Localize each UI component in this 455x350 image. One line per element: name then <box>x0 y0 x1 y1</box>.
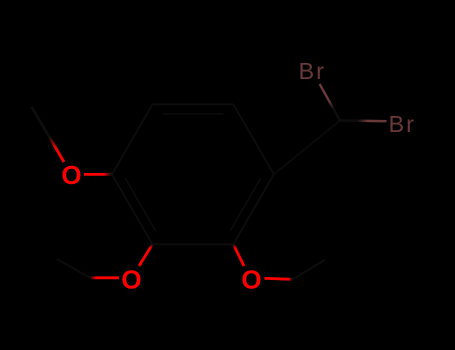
svg-text:O: O <box>121 265 141 295</box>
bond ring D to CHBr2 carbon <box>274 121 340 175</box>
svg-text:O: O <box>241 265 261 295</box>
svg-text:Br: Br <box>299 58 326 84</box>
wire ring edge ll-A <box>112 174 152 244</box>
svg-text:O: O <box>61 160 81 190</box>
aromatic inner line left (ll-A) <box>125 178 155 231</box>
bond CHBr2 carbon to Br top <box>320 84 340 121</box>
wire ring edge ul-ur (top) <box>152 103 233 105</box>
wire ring edge ur-D <box>233 104 273 174</box>
bond O3 to ring lr <box>233 244 244 266</box>
wire ring edge D-lr <box>233 174 273 244</box>
wire ring edge A-ul <box>112 104 152 174</box>
bond CHBr2 carbon to Br right <box>340 119 387 122</box>
bond O1 to ethyl CH2/CH3 (up-left) <box>32 107 64 162</box>
bond O3 to ethyl CH2 (right) <box>265 277 293 281</box>
benzene ring <box>112 104 274 244</box>
wire ring edge lr-ll (bottom) <box>152 243 233 245</box>
bond O2 ethyl CH2-CH3 <box>57 259 90 278</box>
bond O3 ethyl CH2-CH3 <box>293 260 326 280</box>
svg-text:Br: Br <box>389 111 416 137</box>
bond O2 to ethyl CH2 (left) <box>90 276 119 279</box>
bond O1 to ring A (left ethoxy) <box>84 173 112 176</box>
aromatic inner line right (D-lr) <box>230 178 260 231</box>
aromatic inner line top <box>163 113 224 115</box>
bond O2 to ring ll <box>139 244 152 266</box>
